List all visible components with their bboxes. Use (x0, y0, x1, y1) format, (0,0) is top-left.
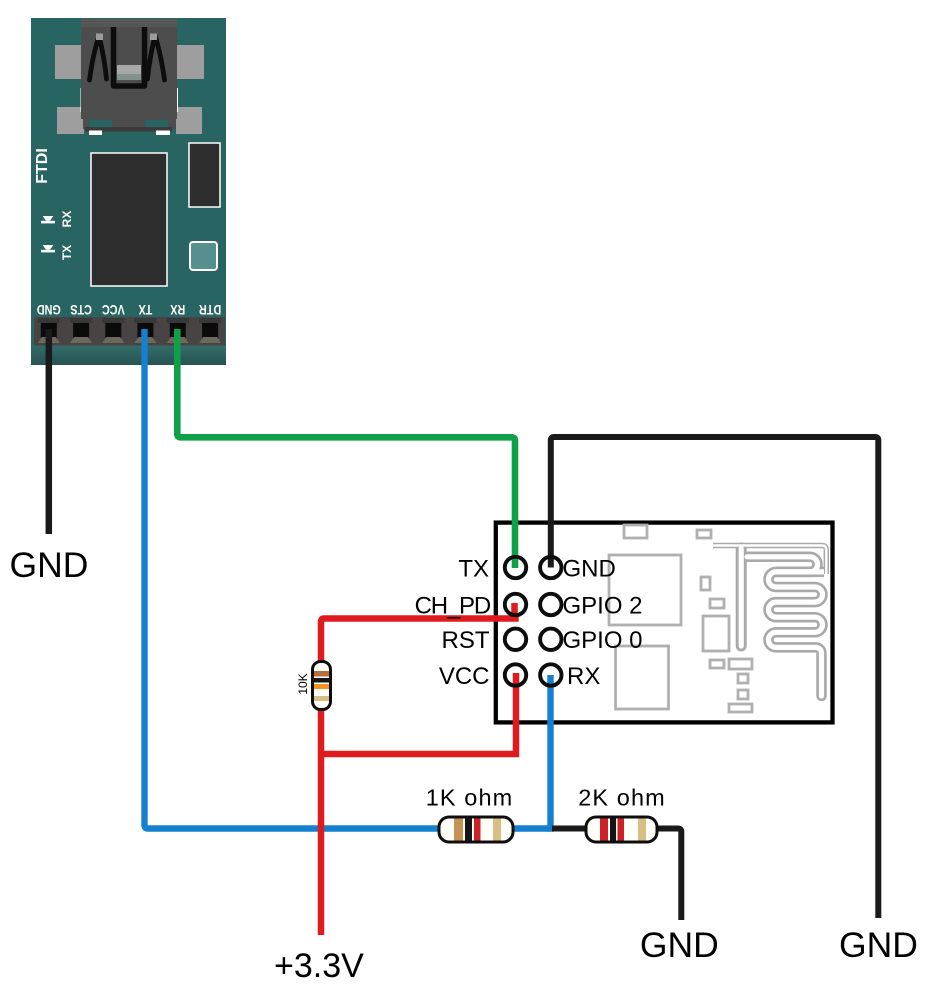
component (pad) bottom right (190, 242, 217, 270)
wire red CH_PD / 10K / +3.3V (321, 603, 519, 935)
svg-text:TX: TX (458, 555, 489, 582)
label GND left (10, 545, 89, 585)
svg-text:CTS: CTS (70, 302, 92, 317)
svg-text:TX: TX (138, 302, 153, 317)
ESP pin circle TX (458, 555, 526, 582)
svg-text:+3.3V: +3.3V (274, 947, 364, 985)
svg-text:CH_PD: CH_PD (415, 592, 491, 619)
pin TX (FTDI) (134, 302, 156, 343)
pin VCC (FTDI) (102, 302, 125, 343)
svg-text:GND: GND (640, 925, 719, 965)
ESP pin circle RX (540, 663, 600, 690)
svg-text:VCC: VCC (102, 302, 125, 317)
svg-text:TX: TX (60, 245, 74, 260)
pin RX (FTDI) (167, 302, 189, 343)
wire 2K to GND (black) (552, 829, 681, 921)
metal shell U (114, 27, 145, 86)
ESP pin circle GND (540, 555, 616, 582)
wire FTDI GND (black) (46, 329, 53, 534)
label GND right (839, 925, 918, 965)
ESP internal component outlines (609, 525, 752, 712)
silkscreen TX (41, 245, 74, 260)
pin DTR (FTDI) (199, 302, 221, 343)
tabs (55, 45, 82, 79)
label +3.3V (274, 947, 364, 985)
ESP pin circle RST (442, 627, 527, 654)
svg-text:FTDI: FTDI (34, 148, 51, 184)
resistor R3 2K (578, 784, 666, 842)
svg-text:RX: RX (567, 663, 600, 690)
left contact spring (90, 36, 100, 80)
wire FTDI RX to ESP TX (green) (177, 329, 515, 568)
svg-text:RX: RX (60, 211, 74, 228)
ESP pin circle VCC (439, 663, 526, 690)
right contact spring (148, 36, 156, 79)
svg-text:1K ohm: 1K ohm (426, 784, 514, 810)
FTDI adapter board U1 (31, 18, 226, 365)
FTDI IC chip (91, 153, 167, 286)
svg-text:GND: GND (37, 302, 61, 317)
ESP pin circle GPIO 2 (540, 592, 642, 619)
pin header strip (34, 317, 225, 346)
svg-text:2K ohm: 2K ohm (578, 784, 666, 810)
svg-text:GND: GND (10, 545, 89, 585)
wire FTDI TX to ESP RX (blue) (145, 329, 551, 829)
svg-text:GND: GND (839, 925, 918, 965)
pin GND (FTDI) (37, 302, 61, 343)
body (81, 19, 177, 119)
svg-text:GPIO 0: GPIO 0 (563, 627, 643, 654)
ESP-01 module (496, 523, 833, 723)
pin CTS (FTDI) (70, 302, 92, 343)
silkscreen RX (41, 211, 74, 228)
resistor R2 1K (426, 784, 514, 842)
svg-text:10K: 10K (296, 673, 310, 694)
USB mini connector J1 (55, 19, 204, 135)
svg-text:RX: RX (170, 302, 186, 317)
ESP pin circle CH_PD (415, 592, 527, 619)
silkscreen FTDI (34, 148, 51, 184)
ESP PCB antenna (713, 546, 826, 697)
label GND middle (640, 925, 719, 965)
wire blue corner at RX (547, 825, 551, 831)
ESP pin circle GPIO 0 (540, 627, 642, 654)
wire red VCC branch (321, 673, 516, 757)
resistor R1 10K (296, 662, 330, 710)
svg-text:DTR: DTR (199, 302, 221, 317)
component (capacitor) top right (189, 143, 220, 207)
svg-text:RST: RST (442, 627, 490, 654)
wire ESP GND to right GND (black) (551, 437, 879, 918)
svg-text:GND: GND (563, 555, 616, 582)
svg-text:VCC: VCC (439, 663, 490, 690)
svg-text:GPIO 2: GPIO 2 (563, 592, 643, 619)
